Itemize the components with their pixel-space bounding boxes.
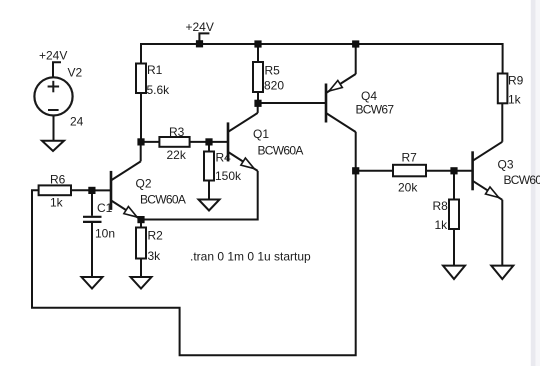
- resistor R1: [136, 64, 146, 94]
- svg-text:+24V: +24V: [39, 49, 67, 63]
- svg-text:22k: 22k: [167, 148, 187, 162]
- ground below C1: [82, 277, 103, 289]
- ground below R2: [131, 277, 152, 289]
- svg-text:Q1: Q1: [253, 127, 269, 141]
- svg-text:R1: R1: [147, 63, 163, 77]
- ground below V2: [42, 141, 64, 151]
- wire R5 bottom to node C: [257, 92, 259, 103]
- ground below Q3 emitter: [491, 266, 513, 279]
- resistor R8: [449, 200, 459, 230]
- ground below R4: [199, 200, 220, 211]
- svg-text:150k: 150k: [215, 169, 242, 183]
- wire Q4 base (node C to Q4): [258, 102, 326, 104]
- wire V2 top stub with +24V flag tick: [53, 62, 61, 77]
- wire top +24V rail: [141, 43, 503, 45]
- svg-text:+24V: +24V: [186, 20, 214, 34]
- svg-text:Q4: Q4: [361, 89, 377, 103]
- wire R3 right to node B: [190, 141, 209, 143]
- transistor Q1: [228, 113, 258, 171]
- svg-text:BCW60A: BCW60A: [504, 173, 540, 187]
- wire Q2 base: [92, 189, 111, 191]
- resistor R9: [498, 74, 508, 104]
- svg-text:3k: 3k: [148, 249, 162, 263]
- wire R7 right to node E: [426, 170, 454, 172]
- wire R5 top: [257, 43, 259, 62]
- node E: R7 right / R8 top / Q3 base: [450, 167, 457, 174]
- svg-text:R8: R8: [433, 199, 449, 213]
- wire R4 top: [208, 142, 210, 152]
- node A: R1 bottom / R3 left / Q2 collector: [137, 138, 144, 145]
- node G: R6 right / C1 top / Q2 base: [88, 187, 95, 194]
- voltage source V2: [34, 77, 72, 115]
- svg-text:Q3: Q3: [498, 158, 514, 172]
- svg-text:24: 24: [70, 115, 84, 129]
- wire node D to R7 left: [356, 170, 393, 172]
- svg-text:1k: 1k: [50, 196, 64, 210]
- resistor R2: [136, 228, 146, 259]
- wire C1 bottom to ground: [91, 222, 93, 277]
- svg-text:V2: V2: [68, 66, 83, 80]
- svg-text:BCW67: BCW67: [356, 103, 395, 117]
- svg-text:820: 820: [264, 79, 284, 93]
- svg-text:R3: R3: [169, 125, 185, 139]
- wire Q1 base: [209, 141, 228, 143]
- wire R2 bottom to ground: [140, 259, 142, 278]
- transistor Q2: [111, 161, 141, 219]
- svg-text:Q2: Q2: [136, 177, 152, 191]
- svg-text:20k: 20k: [398, 181, 418, 195]
- wire R8 top: [453, 171, 455, 200]
- svg-text:R5: R5: [265, 64, 281, 78]
- wire Q1 collector vertical to node C: [257, 103, 259, 113]
- wire rail to R9 top: [502, 43, 504, 74]
- svg-text:R6: R6: [50, 173, 66, 187]
- svg-text:R9: R9: [508, 74, 524, 88]
- transistor Q4: [326, 74, 356, 132]
- node F: Q2 emitter / R2 top / emitter row: [137, 216, 144, 223]
- svg-text:1k: 1k: [508, 93, 522, 107]
- ground below R8: [443, 266, 465, 279]
- svg-text:R2: R2: [148, 229, 164, 243]
- node B: R3 right / R4 top / Q1 base: [205, 138, 212, 145]
- svg-text:R7: R7: [402, 151, 418, 165]
- node: rail Q4 junction: [352, 40, 359, 47]
- capacitor C1: [83, 217, 102, 222]
- svg-text:1k: 1k: [435, 218, 449, 232]
- wire R4 bottom to ground: [208, 181, 210, 200]
- wire V2 bottom to ground: [53, 116, 55, 141]
- resistor R4: [204, 152, 214, 181]
- wire Q3 emitter to ground: [501, 200, 503, 266]
- resistor R7: [393, 165, 426, 177]
- wire node A to R3 left: [141, 141, 159, 143]
- transistor Q3: [473, 142, 503, 200]
- wire Q2 collector vertical to node A: [140, 142, 142, 162]
- svg-text:10n: 10n: [95, 227, 115, 241]
- resistor R3: [159, 137, 189, 147]
- svg-text:5.6k: 5.6k: [147, 83, 171, 97]
- wire Q3 base: [454, 170, 473, 172]
- wire R2 top: [140, 220, 142, 228]
- svg-text:BCW60A: BCW60A: [140, 193, 186, 207]
- resistor R6: [39, 185, 71, 195]
- svg-text:.tran 0 1m 0 1u startup: .tran 0 1m 0 1u startup: [190, 250, 311, 264]
- node D: Q4 collector / R7 left / feedback: [352, 167, 359, 174]
- wire R8 bottom to ground: [453, 229, 455, 266]
- wire R1 bottom to node A: [140, 93, 142, 142]
- wire Q3 collector to R9 bottom: [501, 103, 503, 142]
- wire C1 top: [91, 190, 93, 215]
- wire feedback R6 left down across and up to node D: [32, 171, 356, 355]
- wire Q4 collector vertical to node D: [355, 132, 357, 171]
- wire R1 top: [140, 43, 142, 64]
- wire Q1 emitter down and left to node F: [141, 171, 258, 220]
- node: rail R5 junction: [254, 40, 261, 47]
- wire R6 right to node G: [71, 189, 92, 191]
- wire Q4 emitter vertical: [355, 43, 357, 74]
- wire +24V flag stub on rail: [199, 33, 209, 43]
- resistor R5: [253, 62, 263, 92]
- node: rail flag junction: [196, 40, 203, 47]
- node C: R5 bottom / Q4 base / Q1 collector: [254, 100, 261, 107]
- svg-text:BCW60A: BCW60A: [258, 144, 304, 158]
